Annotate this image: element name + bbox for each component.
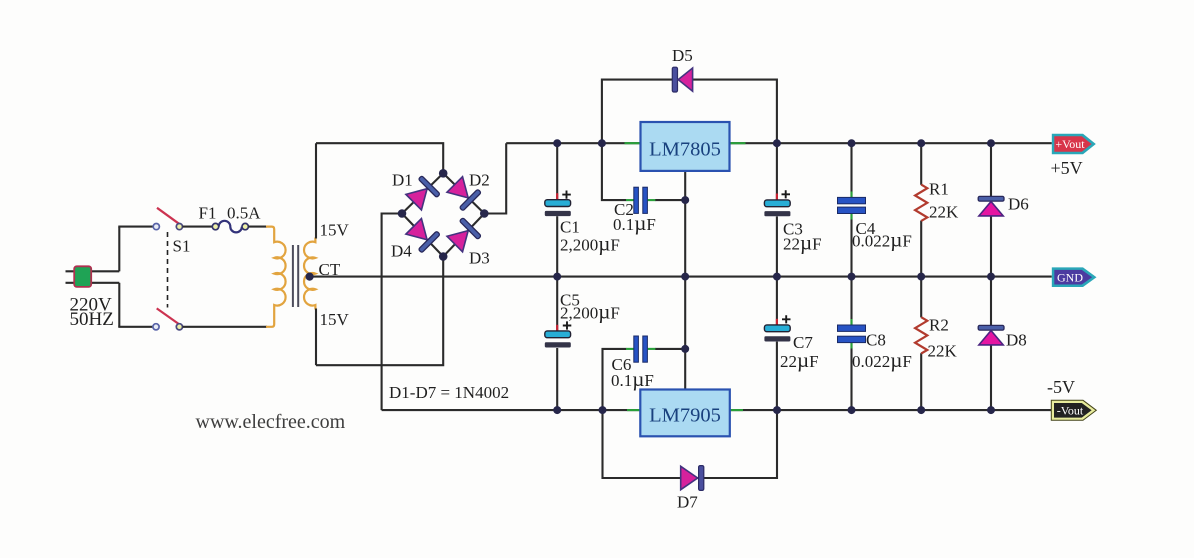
wire mains left vertical	[118, 227, 120, 327]
diode D3	[446, 218, 482, 254]
junction C2 ground pin	[681, 196, 689, 204]
label 220V 50HZ	[70, 295, 114, 331]
wire C6 right lead to ground pin	[655, 348, 685, 350]
junction D8 bottom rail	[987, 406, 995, 414]
junction C4 CT rail	[848, 273, 856, 281]
svg-text:D5: D5	[672, 46, 693, 65]
junction D6 top rail	[987, 139, 995, 147]
diode D4	[404, 217, 440, 253]
svg-text:-5V: -5V	[1047, 377, 1075, 397]
junction D6 CT rail	[987, 273, 995, 281]
svg-text:D2: D2	[469, 171, 490, 190]
wire switch bottom to transformer primary	[183, 326, 268, 328]
junction R1 top rail	[917, 139, 925, 147]
svg-text:22µF: 22µF	[783, 231, 822, 255]
transformer T1 secondary winding	[304, 238, 315, 310]
wire bottom -rail	[382, 409, 1052, 411]
transformer T1 core	[293, 245, 298, 307]
svg-text:0.5A: 0.5A	[227, 204, 261, 223]
svg-text:D1: D1	[392, 171, 413, 190]
diode D7	[681, 466, 704, 491]
label F1 0.5A	[199, 204, 262, 223]
wire mains top to switch	[118, 226, 153, 228]
svg-text:C8: C8	[866, 331, 886, 350]
svg-text:0.1µF: 0.1µF	[613, 211, 656, 235]
wire C2 right lead to ground pin	[655, 199, 685, 201]
svg-text:www.elecfree.com: www.elecfree.com	[196, 411, 346, 433]
capacitor C3	[764, 143, 790, 276]
junction R1 CT rail	[917, 273, 925, 281]
capacitor C7	[764, 277, 790, 411]
svg-text:D1-D7 = 1N4002: D1-D7 = 1N4002	[389, 383, 509, 402]
capacitor C6	[626, 336, 655, 362]
svg-text:D7: D7	[677, 493, 698, 512]
wire CT ground rail	[310, 276, 1052, 278]
svg-text:-Vout: -Vout	[1057, 403, 1084, 417]
wire bridge left node to bottom rail	[382, 214, 402, 411]
svg-text:R2: R2	[929, 316, 949, 335]
wire mains bottom to switch	[118, 326, 153, 328]
svg-text:2,200µF: 2,200µF	[560, 300, 620, 324]
wire bridge right node to top rail	[484, 143, 506, 213]
svg-text:C1: C1	[560, 218, 580, 237]
svg-text:0.022µF: 0.022µF	[852, 228, 912, 252]
svg-text:50HZ: 50HZ	[70, 309, 114, 330]
diode D2	[446, 175, 482, 211]
plug P1	[66, 266, 120, 287]
junction D5 left top rail	[598, 139, 606, 147]
wire C2 branch	[602, 143, 626, 200]
wire top +rail	[506, 142, 1052, 144]
junction bridge bottom node	[439, 252, 448, 261]
regulator U1 LM7805	[625, 122, 746, 277]
switch S1 top pole	[153, 208, 182, 230]
transformer T1 primary winding	[266, 227, 286, 327]
junction bridge top node	[439, 169, 448, 178]
junction D5 right top rail	[773, 139, 781, 147]
svg-text:22K: 22K	[928, 342, 958, 361]
junction C5 bottom rail	[553, 406, 561, 414]
wire bridge edges	[402, 173, 484, 256]
terminal GND	[1052, 267, 1097, 287]
capacitor C1	[545, 143, 571, 276]
junction C6 ground pin	[681, 345, 689, 353]
diode D8	[978, 277, 1004, 411]
junction D7 right bottom rail	[773, 406, 781, 414]
regulator U2 LM7905	[627, 277, 743, 437]
wire secondary top 15V lead	[315, 143, 317, 238]
svg-text:+Vout: +Vout	[1055, 137, 1085, 151]
resistor R1	[915, 143, 927, 276]
capacitor C2	[626, 187, 655, 213]
capacitor C5	[545, 277, 572, 411]
junction C4 top rail	[848, 139, 856, 147]
svg-text:D8: D8	[1006, 331, 1027, 350]
junction bridge left node	[398, 209, 407, 218]
wire switch to fuse	[183, 226, 213, 228]
junction CT tap	[306, 273, 314, 281]
svg-text:D4: D4	[391, 242, 412, 261]
diode D1	[404, 176, 440, 212]
svg-text:15V: 15V	[320, 221, 350, 240]
svg-text:D3: D3	[469, 249, 490, 268]
svg-text:+5V: +5V	[1051, 158, 1083, 178]
svg-text:22K: 22K	[929, 203, 959, 222]
resistor R2	[915, 277, 927, 411]
junction C1 CT rail	[553, 273, 561, 281]
junction R2 bottom rail	[917, 406, 925, 414]
wire D5 bypass loop	[602, 80, 777, 144]
svg-text:0.022µF: 0.022µF	[852, 348, 912, 372]
junction U1 ground CT rail	[681, 273, 689, 281]
wire transformer top to bridge top node	[316, 143, 443, 170]
svg-text:15V: 15V	[320, 310, 350, 329]
junction C3 CT rail	[773, 273, 781, 281]
svg-text:D6: D6	[1008, 195, 1029, 214]
svg-text:S1: S1	[173, 237, 191, 256]
wire C6 branch	[603, 349, 627, 410]
diode D5	[672, 67, 692, 92]
terminal +Vout	[1052, 134, 1096, 154]
wire transformer bottom to bridge bottom node	[316, 257, 443, 366]
svg-text:2,200µF: 2,200µF	[560, 232, 620, 256]
svg-text:LM7805: LM7805	[649, 139, 721, 161]
switch S1 gang dashed link	[167, 232, 169, 308]
wire fuse to transformer primary	[249, 226, 268, 228]
svg-text:R1: R1	[929, 180, 949, 199]
junction D7 left bottom rail	[599, 406, 607, 414]
svg-text:GND: GND	[1057, 271, 1083, 285]
svg-text:F1: F1	[199, 204, 217, 223]
junction C1 top rail	[553, 139, 561, 147]
junction C8 bottom rail	[848, 406, 856, 414]
terminal -Vout	[1051, 400, 1096, 420]
wire D7 bypass loop	[603, 410, 778, 478]
svg-text:LM7905: LM7905	[649, 405, 721, 427]
svg-text:22µF: 22µF	[780, 348, 819, 372]
junction bridge right node	[480, 209, 489, 218]
svg-text:0.1µF: 0.1µF	[611, 367, 654, 391]
switch S1 bottom pole	[153, 308, 183, 330]
wire secondary bottom 15V lead	[315, 309, 317, 366]
capacitor C8	[838, 277, 866, 411]
diode D6	[978, 143, 1004, 276]
capacitor C4	[838, 143, 866, 276]
fuse F1	[212, 221, 248, 233]
